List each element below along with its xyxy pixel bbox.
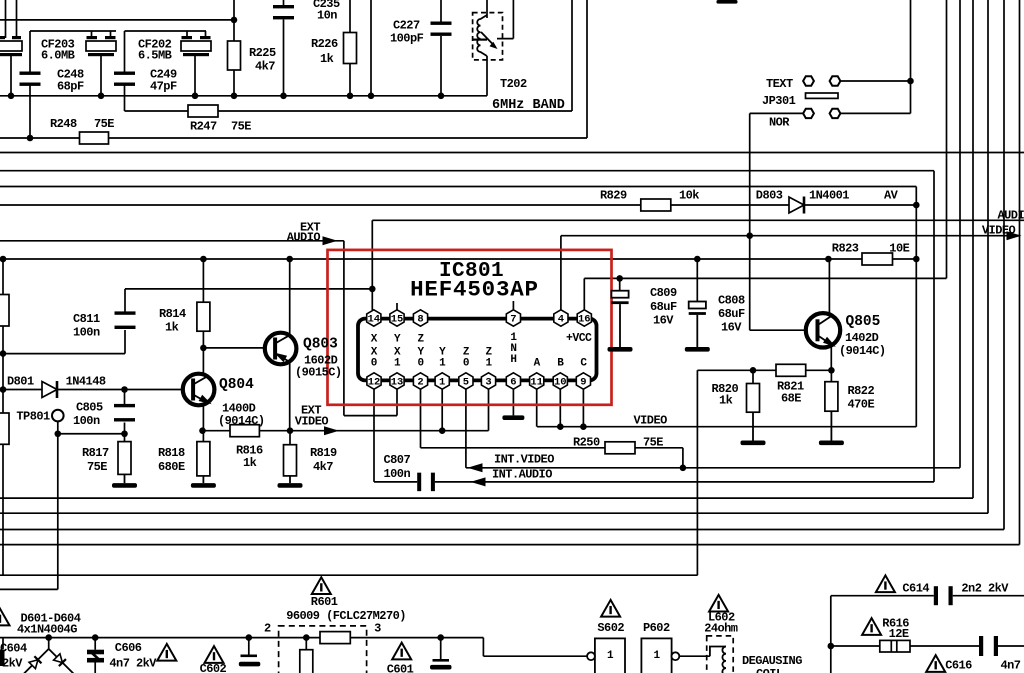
wire R248 line [0, 137, 587, 139]
wire left filter top lead b [16, 0, 18, 38]
svg-text:C616: C616 [945, 659, 972, 673]
arrow INT.VIDEO [468, 463, 483, 472]
svg-text:12: 12 [368, 376, 381, 388]
svg-text:10E: 10E [889, 242, 909, 256]
svg-text:1: 1 [394, 358, 401, 370]
IC801 pin 4 [554, 310, 568, 326]
wire TP801 bottom link [0, 588, 58, 590]
svg-text:96009 (FCLC27M270): 96009 (FCLC27M270) [286, 609, 406, 623]
transistor Q803 [265, 333, 297, 365]
wire bus2 drop to INT.AUDIO [933, 171, 935, 482]
ceramic filter CF201 (cut at edge) [0, 36, 22, 56]
wire bus4 riser [972, 0, 974, 498]
wire EXT AUDIO line [0, 240, 344, 242]
resistor R248 [80, 132, 109, 144]
ceramic filter CF202 [181, 36, 211, 56]
resistor R817 [118, 442, 131, 475]
connector S602 [587, 638, 625, 673]
wire AUDIO output line [372, 219, 1024, 221]
wire C248 bottom lead [29, 86, 31, 139]
node junction Q803 base [200, 345, 207, 352]
capacitor C602 [239, 655, 260, 667]
wire CF203 top stub b [110, 31, 112, 38]
wire R225 top lead [233, 0, 235, 41]
wire pin1 drop [441, 390, 443, 431]
wire bus line 8 [0, 574, 698, 576]
fusible resistor R616 [880, 640, 910, 652]
svg-text:C601: C601 [387, 663, 414, 673]
wire bus line 1 [0, 152, 1024, 154]
IC801 pin 13 [390, 373, 404, 389]
svg-text:2kV: 2kV [2, 657, 23, 671]
dashed box R601 assembly [279, 626, 367, 673]
wire filter ground bus [0, 95, 487, 97]
wire Q803 emitter lead [289, 363, 291, 431]
svg-text:14: 14 [367, 313, 380, 325]
wire R818 top lead [202, 431, 204, 442]
svg-text:INT.AUDIO: INT.AUDIO [492, 468, 552, 482]
wire R616 line b [910, 645, 979, 647]
node junction TP801 [55, 430, 62, 437]
wire Q805 base link [750, 329, 806, 331]
wire Q803 collector to pin14 [125, 288, 372, 290]
IC801 body [358, 319, 597, 381]
wire VIDEO output line [561, 235, 1019, 237]
wire C614 line right [953, 595, 1024, 597]
wire pin7 stub [512, 301, 514, 310]
degaussing coil L602 [707, 636, 734, 673]
wire C602 top lead [248, 638, 250, 655]
resistor R829 [641, 199, 671, 211]
thermistor PTC R601 [300, 650, 313, 673]
svg-text:2: 2 [264, 622, 271, 636]
capacitor C227 [431, 22, 452, 36]
node junction R226 bus [347, 93, 354, 100]
wire pin2 drop [420, 390, 422, 448]
wire CF202 bottom lead [194, 55, 196, 96]
diode D803 [789, 197, 804, 214]
svg-text:R601: R601 [311, 595, 338, 609]
wire T202 bottom lead [486, 56, 488, 96]
svg-text:A: A [534, 358, 541, 370]
node junction C805 R817 [121, 430, 128, 437]
capacitor C601 [430, 659, 452, 670]
wire R814 top lead [202, 259, 204, 302]
ground R822 [819, 411, 844, 445]
wire bus line 3 (box top) [0, 186, 916, 188]
wire C811 bottom lead [124, 330, 126, 354]
svg-text:R814: R814 [159, 307, 186, 321]
wire pin15 stub [396, 303, 398, 310]
svg-text:1k: 1k [243, 456, 257, 470]
wire R226 leads [349, 0, 351, 96]
resistor R818 [197, 442, 210, 476]
arrow VIDEO out [1007, 231, 1022, 240]
svg-text:C606: C606 [115, 641, 142, 655]
pad NOR left [803, 109, 814, 118]
node junction C601 [437, 634, 444, 641]
wire bus line 6 [0, 529, 1004, 531]
hazard triangle C602 [205, 646, 224, 663]
svg-text:47pF: 47pF [150, 80, 177, 94]
capacitor C616 [979, 636, 998, 656]
svg-text:R250: R250 [573, 436, 600, 450]
node junction filter bus c [192, 93, 199, 100]
wire pin14 riser to AUDIO [371, 220, 373, 310]
svg-text:3: 3 [485, 376, 491, 388]
wire R820 node vertical [696, 370, 698, 575]
wire bus line 7 [0, 544, 1020, 546]
node junction R823 end [913, 256, 920, 263]
svg-text:100pF: 100pF [390, 32, 424, 46]
node junction pin14 collector [369, 286, 376, 293]
svg-text:R822: R822 [848, 384, 875, 398]
hazard triangle R616 [862, 618, 881, 635]
wire ext-audio to pin13 [344, 415, 397, 417]
IC801 pin 16 [577, 310, 591, 326]
svg-text:S602: S602 [597, 621, 624, 635]
svg-text:C809: C809 [650, 286, 677, 300]
wire C606 bottom lead [94, 663, 96, 673]
ground C808 [685, 315, 710, 352]
capacitor C248 [20, 72, 41, 86]
node junction pin1 ext video [439, 427, 446, 434]
resistor left-edge upper (cut) [0, 295, 9, 327]
node junction left rail supply [0, 256, 6, 263]
wire pin3 drop [488, 390, 490, 431]
svg-text:TP801: TP801 [16, 410, 50, 424]
node junction C809 vcc [616, 275, 623, 282]
svg-text:C807: C807 [384, 453, 411, 467]
node junction D801 C805 [121, 386, 128, 393]
wire vertical drop x371 [370, 0, 372, 96]
node junction R601 [303, 634, 310, 641]
svg-text:75E: 75E [643, 436, 663, 450]
wire C606 top lead [94, 638, 96, 650]
node junction Q803 supply [286, 256, 293, 263]
wire supply node line [3, 258, 916, 260]
svg-text:1: 1 [439, 358, 446, 370]
wire Q803 base link [203, 347, 265, 349]
wire bus line 5 [0, 512, 988, 514]
svg-text:13: 13 [391, 376, 404, 388]
wire R250 line [421, 447, 683, 449]
svg-text:COIL: COIL [756, 667, 783, 673]
node junction C227 bus [438, 93, 445, 100]
svg-text:Q804: Q804 [219, 377, 254, 393]
hazard triangle left edge [0, 609, 10, 626]
svg-text:R226: R226 [311, 37, 338, 51]
svg-text:NOR: NOR [769, 116, 790, 130]
node junction R225 bus [231, 93, 238, 100]
IC801 pin 14 [367, 310, 381, 326]
svg-text:Q803: Q803 [303, 337, 338, 353]
wire C808 top lead [696, 259, 698, 302]
svg-text:(9015C): (9015C) [295, 366, 342, 380]
svg-text:P602: P602 [643, 621, 670, 635]
svg-text:HEF4503AP: HEF4503AP [410, 277, 539, 303]
wire VIDEO node under IC [537, 426, 916, 428]
wire C601 top lead [440, 638, 442, 659]
svg-text:C811: C811 [73, 312, 100, 326]
wire +VCC riser [946, 0, 948, 278]
svg-text:R819: R819 [310, 446, 337, 460]
wire NOR link right [841, 112, 911, 114]
wire C248 top lead [29, 31, 31, 73]
svg-text:(9014C): (9014C) [839, 344, 886, 358]
wire pin4 riser to VIDEO [560, 236, 562, 310]
svg-text:4n7 2kV: 4n7 2kV [109, 657, 157, 671]
svg-text:DEGAUSING: DEGAUSING [742, 654, 802, 668]
svg-text:+VCC: +VCC [566, 332, 592, 345]
svg-text:1k: 1k [165, 321, 179, 335]
resistor R816 [230, 425, 259, 437]
wire C227 top lead [440, 0, 442, 23]
svg-text:100n: 100n [384, 467, 411, 481]
capacitor C235 [273, 5, 294, 19]
wire D801 line [3, 389, 183, 391]
hazard triangle C601 [392, 643, 411, 660]
svg-text:Z: Z [417, 334, 424, 346]
node junction filter bus a [8, 93, 15, 100]
wire R616 line a [831, 645, 880, 647]
svg-text:7: 7 [510, 313, 516, 325]
node junction C808 supply [694, 256, 701, 263]
ceramic filter CF203 [86, 36, 116, 56]
wire bridge stub [48, 638, 50, 649]
wire R817 top lead [124, 434, 126, 442]
wire CF202 top stub b [205, 31, 207, 38]
wire bus line 2 (to INT.AUDIO drop) [0, 170, 934, 172]
wire T202 secondary top lead [512, 0, 514, 39]
IC801 pin 5 [459, 373, 473, 389]
node junction Q805 supply [825, 256, 832, 263]
transformer T202 [473, 13, 503, 60]
hazard triangle R601 [312, 577, 331, 594]
wire INT.VIDEO riser [959, 0, 961, 468]
wire TP801 vertical [57, 421, 59, 589]
capacitor C809 [611, 291, 628, 304]
wire C249 bottom lead [124, 86, 126, 112]
wire CF203 bottom lead [100, 55, 102, 96]
ground R817 [112, 474, 137, 487]
svg-text:12E: 12E [889, 627, 909, 641]
resistor R247 [188, 105, 218, 117]
IC801 pin 9 [576, 373, 590, 389]
capacitor C808 [689, 302, 706, 315]
svg-text:C604: C604 [0, 642, 27, 656]
svg-text:1k: 1k [719, 394, 733, 408]
wire R819 top lead [289, 431, 291, 445]
bridge rectifier D601-D604 [24, 649, 73, 673]
node junction R819 top [287, 427, 294, 434]
svg-text:10n: 10n [317, 9, 337, 23]
wire top-left rail [0, 19, 234, 21]
svg-text:1N4001: 1N4001 [809, 189, 849, 203]
wire T202 primary top lead [486, 0, 488, 18]
svg-text:11: 11 [530, 376, 543, 388]
wire TEXT jumper link [841, 80, 911, 82]
resistor left-edge lower (cut) [0, 413, 9, 444]
wire 6MHz box bottom / R247 line [125, 110, 573, 112]
pad TEXT right [830, 76, 841, 85]
svg-text:H: H [510, 354, 516, 366]
svg-text:75E: 75E [231, 120, 251, 134]
IC801 pin 3 [481, 373, 495, 389]
wire pin9 drop [582, 390, 584, 427]
svg-text:AUDIO: AUDIO [998, 209, 1024, 223]
transistor Q805 [806, 313, 840, 347]
wire R822 top lead [830, 370, 832, 381]
jumper JP301 [806, 93, 839, 98]
wire C805 top lead [124, 390, 126, 405]
svg-text:C805: C805 [76, 401, 103, 415]
svg-text:0: 0 [463, 358, 469, 370]
svg-text:4k7: 4k7 [255, 60, 275, 74]
wire NOR link left [750, 112, 803, 114]
IC801 pin 2 [413, 373, 427, 389]
IC801 pin 11 [530, 373, 544, 389]
svg-text:68E: 68E [781, 392, 801, 406]
svg-text:B: B [557, 358, 564, 370]
svg-text:R248: R248 [50, 117, 77, 131]
wire R820 top lead [752, 370, 754, 383]
svg-text:470E: 470E [848, 398, 875, 412]
svg-text:1N4148: 1N4148 [66, 375, 106, 389]
resistor R250 [605, 442, 635, 454]
node junction pin9 [580, 423, 587, 430]
svg-text:R829: R829 [600, 189, 627, 203]
ground bar top edge [717, 0, 738, 4]
svg-text:VIDEO: VIDEO [295, 415, 329, 429]
svg-text:2: 2 [417, 376, 423, 388]
wire 6MHz box right edge [571, 0, 573, 111]
svg-text:1: 1 [653, 650, 660, 662]
transistor Q804 [183, 374, 215, 406]
svg-text:75E: 75E [94, 117, 114, 131]
hazard triangle L602 [709, 595, 728, 612]
svg-text:6MHz BAND: 6MHz BAND [492, 98, 565, 113]
wire left filter bottom lead [10, 55, 12, 96]
svg-text:100n: 100n [73, 326, 100, 340]
svg-text:10k: 10k [679, 189, 699, 203]
svg-text:VIDEO: VIDEO [634, 414, 668, 428]
connector P602 [641, 638, 679, 673]
svg-text:R225: R225 [249, 46, 276, 60]
test point TP801 [52, 410, 64, 422]
svg-text:680E: 680E [158, 460, 185, 474]
resistor R822 [825, 382, 838, 412]
svg-text:AUDIO: AUDIO [287, 230, 321, 244]
wire NOR net vertical [749, 113, 751, 330]
hazard triangle C616 [926, 655, 945, 672]
IC801 pin 12 [367, 373, 381, 389]
wire EXT VIDEO line [203, 430, 489, 432]
svg-text:75E: 75E [87, 460, 107, 474]
node junction NOR video [746, 232, 753, 239]
hazard triangle S602 [601, 600, 620, 617]
wire C235 top lead [283, 0, 285, 6]
node junction C602 [246, 634, 253, 641]
svg-text:5: 5 [463, 376, 469, 388]
wire left filter top lead a [5, 0, 7, 38]
node junction C248 R248 [27, 135, 34, 142]
svg-text:16: 16 [578, 313, 591, 325]
capacitor C805 [114, 404, 135, 422]
capacitor C249 [114, 72, 135, 86]
wire pin12 drop [373, 390, 375, 482]
svg-text:2n2 2kV: 2n2 2kV [961, 582, 1009, 596]
arrow EXT VIDEO [324, 426, 339, 435]
wire Q805 emitter lead [830, 347, 832, 371]
svg-text:T202: T202 [500, 77, 527, 91]
resistor R819 [284, 445, 297, 476]
arrow EXT AUDIO [323, 236, 338, 245]
wire C235 bottom lead [283, 20, 285, 96]
svg-text:3: 3 [374, 622, 381, 636]
svg-text:16V: 16V [653, 314, 674, 328]
wire degauss jog down [482, 638, 484, 657]
svg-text:C227: C227 [393, 19, 420, 33]
wire INT.AUDIO line right [435, 481, 934, 483]
ground R820 [741, 412, 766, 445]
svg-text:9: 9 [580, 376, 586, 388]
wire pin16 riser [583, 278, 585, 310]
svg-text:6.5MB: 6.5MB [138, 49, 172, 63]
node junction C811 left [0, 350, 6, 357]
svg-text:6: 6 [510, 376, 516, 388]
svg-text:1402D: 1402D [845, 331, 879, 345]
wire R814 to Q804 collector [202, 331, 204, 375]
wire Q803 collector lead [289, 259, 291, 334]
node junction R820 top [750, 367, 757, 374]
svg-text:TEXT: TEXT [766, 77, 793, 91]
svg-text:0: 0 [417, 358, 423, 370]
svg-text:4n7: 4n7 [1001, 659, 1021, 673]
wire R248 line riser [586, 0, 588, 138]
resistor R821 [776, 364, 806, 376]
wire C614 corner vertical [830, 596, 832, 673]
resistor R820 [747, 384, 760, 413]
svg-text:1: 1 [439, 376, 445, 388]
wire P602 to L602 [679, 655, 710, 657]
svg-text:10: 10 [554, 376, 567, 388]
svg-text:C614: C614 [902, 582, 929, 596]
wire R616 line c [998, 645, 1024, 647]
wire pin6 ground lead [512, 390, 514, 416]
wire ext-audio drop [343, 241, 345, 416]
wire R820 R821 node line [697, 369, 831, 371]
svg-text:R823: R823 [832, 242, 859, 256]
wire degauss main line [0, 637, 483, 639]
wire R601 PTC lead [305, 638, 307, 650]
svg-text:15: 15 [391, 313, 404, 325]
ground R818 [191, 476, 216, 488]
wire CF203 top link [30, 30, 116, 32]
capacitor C811 [115, 311, 136, 329]
node junction x371 bus [368, 93, 375, 100]
node junction pin10 [557, 423, 564, 430]
svg-text:D801: D801 [7, 375, 34, 389]
resistor R823 [862, 253, 893, 265]
IC801 pin 15 [390, 310, 404, 326]
ground R819 [278, 476, 303, 488]
svg-text:JP301: JP301 [762, 94, 796, 108]
wire C604 stub [2, 638, 4, 649]
svg-text:8: 8 [417, 313, 423, 325]
wire pin10 drop [559, 390, 561, 427]
ground pin6 [502, 415, 524, 420]
